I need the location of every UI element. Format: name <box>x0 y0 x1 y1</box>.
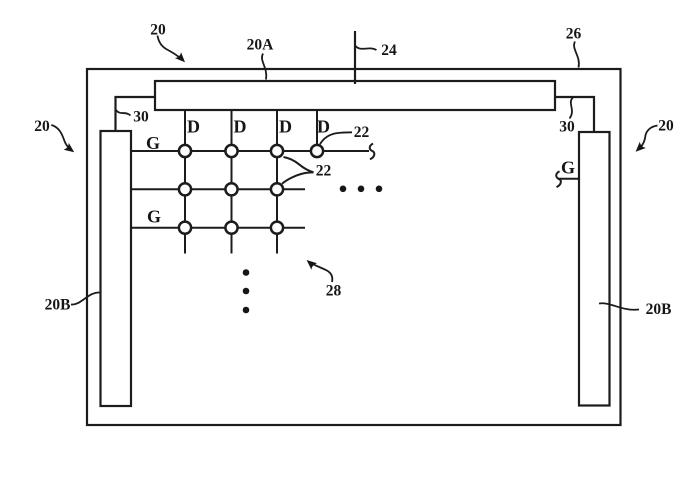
data line D4 <box>316 110 318 152</box>
svg-text:D: D <box>187 117 200 137</box>
data line D2 <box>231 110 233 254</box>
svg-text:24: 24 <box>381 42 397 59</box>
outer housing 26 <box>87 69 621 425</box>
break mark at right end of gate line row 1 <box>370 144 375 160</box>
pixel 22 row1 col3 <box>271 145 283 157</box>
pixel 22 row2 col1 <box>179 183 191 195</box>
svg-text:D: D <box>317 117 330 137</box>
wire 30 left (driver to left gate bar) <box>116 97 156 131</box>
gate line row 2 <box>131 188 305 190</box>
data line D3 <box>276 110 278 254</box>
svg-text:30: 30 <box>559 119 575 136</box>
pixel 22 row1 col2 <box>225 145 237 157</box>
svg-text:30: 30 <box>133 109 149 126</box>
svg-text:20: 20 <box>34 118 50 135</box>
svg-text:20: 20 <box>658 118 674 135</box>
svg-text:D: D <box>279 117 292 137</box>
svg-text:20A: 20A <box>247 37 275 54</box>
pixel 22 row3 col2 <box>225 222 237 234</box>
break mark on right gate stub <box>556 171 561 187</box>
pixel 22 row2 col2 <box>225 183 237 195</box>
pixel 22 row1 col4 <box>311 145 323 157</box>
svg-text:28: 28 <box>326 283 342 300</box>
display driver bar 20A <box>155 81 555 110</box>
data line D1 <box>184 110 186 254</box>
svg-text:22: 22 <box>316 163 332 180</box>
svg-text:G: G <box>147 207 161 227</box>
svg-text:20B: 20B <box>45 297 71 314</box>
wire 30 right (driver to right gate bar) <box>555 97 594 132</box>
left gate driver bar 20B <box>101 131 132 406</box>
svg-text:20B: 20B <box>646 301 672 318</box>
svg-text:22: 22 <box>354 124 370 141</box>
pixel 22 row2 col3 <box>271 183 283 195</box>
svg-text:D: D <box>234 117 247 137</box>
pixel 22 row3 col3 <box>271 222 283 234</box>
gate line stub G right <box>558 178 580 180</box>
wire 24 (flex line to driver) <box>354 31 356 84</box>
svg-text:26: 26 <box>566 26 582 43</box>
pixel 22 row1 col1 <box>179 145 191 157</box>
svg-text:G: G <box>146 133 160 153</box>
gate line G row 1 <box>131 150 369 152</box>
pixel 22 row3 col1 <box>179 222 191 234</box>
right gate driver bar 20B <box>579 132 610 406</box>
ellipsis dots vertical (more rows) <box>243 269 250 313</box>
gate line G row 3 <box>131 227 305 229</box>
ellipsis dots horizontal (more columns) <box>340 186 383 193</box>
svg-text:G: G <box>561 158 575 178</box>
